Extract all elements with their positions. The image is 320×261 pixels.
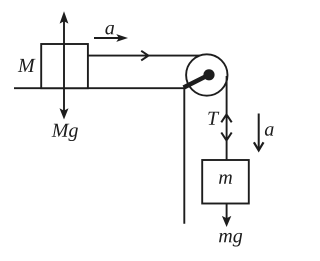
arrowhead: mg down xyxy=(222,216,231,227)
wire: table surface line xyxy=(14,87,184,89)
arrow: acceleration a of mass (shaft) xyxy=(258,114,260,150)
label mg xyxy=(219,233,242,247)
arrowhead: tension chevron down xyxy=(221,133,231,141)
arrowhead: open chevron on string pointing right xyxy=(141,51,148,61)
label T xyxy=(208,112,219,125)
label m xyxy=(219,174,232,183)
label Mg xyxy=(52,124,78,141)
pulley wheel xyxy=(186,54,227,95)
arrowhead: tension chevron up xyxy=(221,114,231,122)
wire: horizontal string from block M to pulley xyxy=(88,55,202,57)
arrow: normal force up / weight down through block, shaft xyxy=(63,20,65,111)
arrow: mg weight (shaft) xyxy=(226,204,228,219)
arrowhead: a right xyxy=(116,34,128,42)
wire: table side vertical line xyxy=(183,88,185,224)
label M xyxy=(18,59,36,72)
pulley bracket / axle arm xyxy=(184,75,209,88)
arrowhead: down (Mg) xyxy=(60,108,69,119)
arrowhead: up (normal force) xyxy=(60,11,69,23)
mass m (hanging box) xyxy=(202,160,249,204)
wire: vertical string from pulley to mass m xyxy=(226,76,228,160)
label a (right, near mass) xyxy=(265,126,274,136)
arrow: acceleration a of block (shaft) xyxy=(94,37,120,39)
pulley axle hub (filled dot) xyxy=(203,69,214,80)
arrowhead: a down chevron xyxy=(254,142,264,150)
block M (rectangle on table) xyxy=(41,44,88,88)
label a (top) xyxy=(105,25,114,35)
